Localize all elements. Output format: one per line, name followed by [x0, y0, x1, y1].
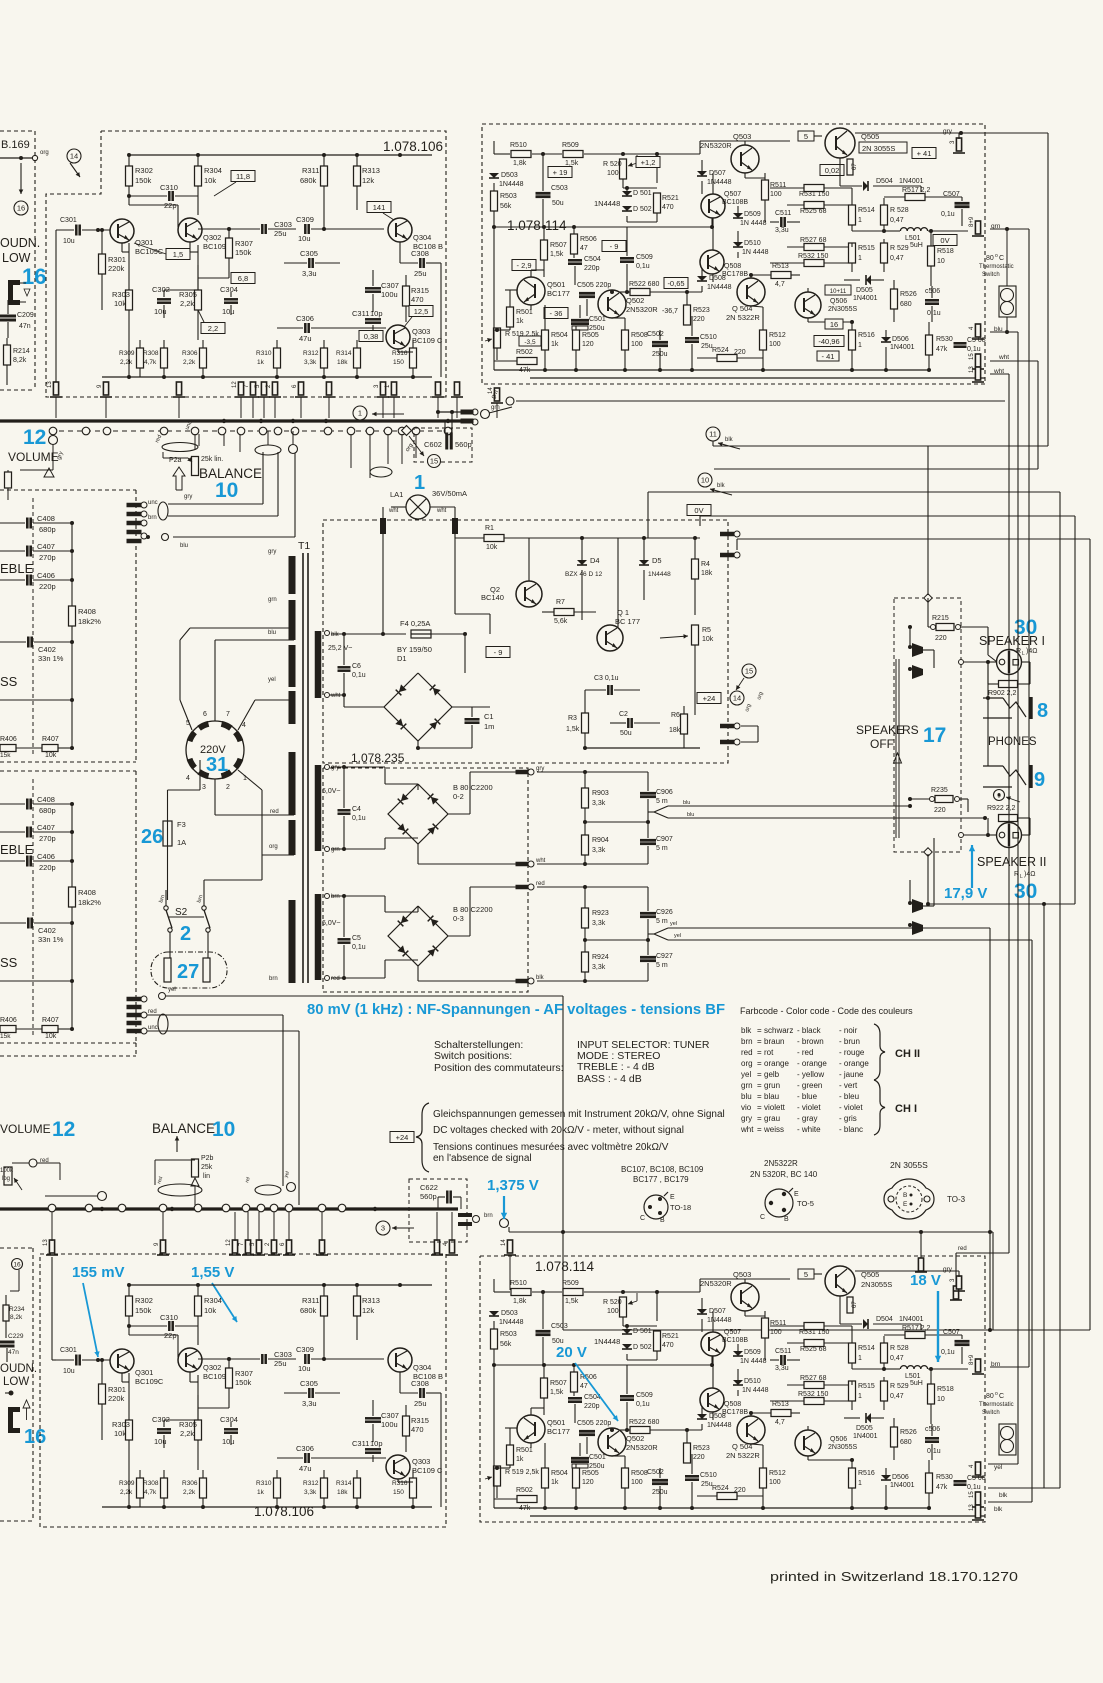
- svg-text:- yellow: - yellow: [797, 1070, 824, 1079]
- capacitor C303 25u: [198, 220, 296, 238]
- capacitor C906 5m: [640, 772, 673, 822]
- resistor R306 2,2k: [182, 340, 207, 377]
- annotation 31 cyan: [206, 754, 228, 776]
- svg-text:C304: C304: [220, 1415, 238, 1424]
- svg-text:680p: 680p: [39, 806, 56, 815]
- svg-text:R314: R314: [336, 350, 352, 357]
- svg-text:470: 470: [411, 1425, 424, 1434]
- svg-text:C: C: [760, 1214, 765, 1221]
- T1 secondary 6V winding upper: [318, 765, 341, 854]
- diode D510 1N4448 (lower): [733, 1369, 769, 1396]
- wire Q502 links (lower): [610, 1428, 625, 1456]
- label 1.078.114: [507, 218, 567, 233]
- svg-text:C406: C406: [37, 852, 55, 861]
- resistor R506 47: [571, 225, 597, 258]
- svg-text:R515: R515: [858, 245, 875, 252]
- svg-text:R301: R301: [108, 255, 126, 264]
- svg-text:13: 13: [43, 1239, 49, 1246]
- svg-text:D504: D504: [876, 178, 893, 185]
- svg-text:100: 100: [770, 191, 782, 198]
- svg-text:4,7k: 4,7k: [144, 359, 157, 366]
- svg-text:18 V: 18 V: [910, 1272, 941, 1289]
- wire Q501 links: [510, 270, 544, 310]
- svg-text:Q507: Q507: [724, 191, 741, 198]
- capacitor C510 25u (lower): [685, 1454, 717, 1508]
- wire gry rail to filters: [537, 770, 587, 774]
- wire blu pair to speakers: [648, 800, 987, 820]
- wire blk rail to filters: [537, 979, 587, 983]
- svg-text:R 520: R 520: [603, 161, 622, 168]
- resistor R501 1k: [507, 290, 533, 330]
- power supply board dashed outline: [323, 520, 728, 763]
- svg-text:)4Ω: )4Ω: [1026, 648, 1037, 655]
- diode D506 1N4001 (lower): [881, 1468, 915, 1508]
- svg-text:50u: 50u: [552, 200, 564, 207]
- svg-text:10u: 10u: [298, 234, 311, 243]
- svg-text:D 502: D 502: [633, 206, 652, 213]
- wire gry from Q505 to speakers loop: [713, 131, 1048, 446]
- svg-text:1,375 V: 1,375 V: [487, 1177, 539, 1194]
- plug 14 lower: [501, 1239, 516, 1290]
- svg-text:25u: 25u: [274, 229, 287, 238]
- svg-text:R515: R515: [858, 1383, 875, 1390]
- svg-text:D1: D1: [397, 654, 407, 663]
- wire grn return top amp: [516, 230, 1005, 401]
- svg-text:- 9: - 9: [610, 242, 619, 251]
- capacitor C506 0,1u: [925, 286, 941, 322]
- svg-text:2N5320R: 2N5320R: [700, 141, 732, 150]
- svg-text:CH II: CH II: [895, 1048, 920, 1060]
- svg-text:R504: R504: [551, 332, 568, 339]
- svg-text:0,47: 0,47: [890, 255, 904, 262]
- svg-text:blu: blu: [994, 326, 1003, 333]
- label LOUDN. LOW: [0, 236, 40, 265]
- svg-text:25u: 25u: [414, 269, 427, 278]
- svg-text:C2: C2: [619, 711, 628, 718]
- svg-text:220: 220: [693, 1454, 705, 1461]
- svg-text:5uH: 5uH: [910, 242, 923, 249]
- transformer T1 core: [303, 553, 308, 983]
- brace CH I: [874, 1080, 917, 1135]
- svg-text:R4: R4: [701, 561, 710, 568]
- svg-text:R234: R234: [9, 1306, 25, 1313]
- svg-text:D507: D507: [709, 1308, 726, 1315]
- label 2N types TO5: [750, 1159, 818, 1179]
- svg-text:grau: grau: [764, 1114, 780, 1123]
- boxed value 0,02: [820, 165, 844, 176]
- svg-text:10k: 10k: [486, 544, 498, 551]
- svg-text:5,6k: 5,6k: [554, 618, 568, 625]
- boxed value +1,2: [636, 157, 660, 168]
- svg-text:141: 141: [373, 203, 386, 212]
- wires bus to lower plugs: [52, 1212, 452, 1241]
- svg-text:10k: 10k: [702, 636, 714, 643]
- resistor R903 3,3k: [582, 772, 609, 822]
- svg-text:1N4448: 1N4448: [707, 1422, 732, 1429]
- speaker switch dashed box: [894, 598, 961, 852]
- svg-text:C305: C305: [300, 249, 318, 258]
- svg-text:R505: R505: [582, 1470, 599, 1477]
- svg-text:3,3u: 3,3u: [775, 227, 789, 234]
- svg-text:R522 680: R522 680: [629, 1419, 659, 1426]
- svg-text:C: C: [999, 255, 1004, 262]
- plug 4 blu: [969, 324, 1003, 339]
- svg-text:- violet: - violet: [797, 1103, 821, 1112]
- svg-text:yel: yel: [741, 1070, 751, 1079]
- svg-text:blk: blk: [717, 483, 726, 489]
- svg-text:1: 1: [358, 409, 362, 418]
- svg-text:13: 13: [969, 1504, 975, 1511]
- resistor R503 56k: [491, 191, 517, 330]
- svg-text:wht: wht: [993, 368, 1004, 375]
- thermostatic switch 80C (lower): [979, 1391, 1016, 1455]
- svg-text:150k: 150k: [135, 1306, 152, 1315]
- svg-text:- noir: - noir: [839, 1026, 858, 1035]
- wire mid rail 114 (lower): [492, 1329, 714, 1367]
- svg-text:red: red: [148, 1009, 157, 1015]
- switch S2: [158, 855, 262, 958]
- svg-text:C504: C504: [584, 256, 601, 263]
- resistor R902 2,2: [988, 662, 1030, 697]
- svg-text:D508: D508: [709, 275, 726, 282]
- svg-text:wht: wht: [740, 1125, 754, 1134]
- svg-text:BC140: BC140: [481, 593, 504, 602]
- svg-text:unc: unc: [148, 500, 158, 506]
- resistor R513 4,7: [750, 263, 800, 288]
- svg-text:C5 08: C5 08: [967, 337, 986, 344]
- svg-text:80: 80: [986, 255, 994, 262]
- resistor R531 150: [770, 185, 852, 199]
- resistor R316 150: [392, 340, 417, 377]
- label gry plug (lower): [855, 1266, 965, 1291]
- label SPEAKER II: [977, 855, 1046, 869]
- wire Q506 links (lower): [808, 1426, 854, 1462]
- svg-text:R214: R214: [13, 348, 30, 355]
- svg-text:Q 504: Q 504: [732, 304, 752, 313]
- svg-text:D505: D505: [856, 1425, 873, 1432]
- svg-text:R527 68: R527 68: [800, 237, 827, 244]
- svg-text:0,1u: 0,1u: [352, 944, 366, 951]
- wire red long lower: [147, 1015, 283, 1186]
- resistor R520 100: [603, 155, 637, 188]
- capacitor C305 3,3u: [284, 1379, 340, 1408]
- capacitor C311 10p: [352, 1439, 383, 1462]
- svg-text:R406: R406: [0, 1017, 17, 1024]
- svg-text:114: 114: [545, 218, 567, 233]
- svg-text:1N 4448: 1N 4448: [742, 1387, 769, 1394]
- wire bus brn to lower right: [509, 1227, 993, 1330]
- svg-text:220: 220: [934, 807, 946, 814]
- svg-text:2N5322R: 2N5322R: [764, 1159, 798, 1168]
- svg-text:1k: 1k: [551, 1479, 559, 1486]
- svg-text:Q508: Q508: [724, 263, 741, 270]
- svg-text:1N4448: 1N4448: [594, 1337, 620, 1346]
- svg-text:0V: 0V: [694, 506, 703, 515]
- transistor Q505 2N3055S: [825, 128, 879, 158]
- bridge rectifier B80 C2200 0-2: [388, 783, 493, 844]
- svg-text:5uH: 5uH: [910, 1380, 923, 1387]
- wire tone rail: [0, 927, 74, 1029]
- wire blu plug4 to lower amp: [988, 332, 1018, 1464]
- pinout TO-5: [760, 1188, 814, 1223]
- svg-text:- blanc: - blanc: [839, 1125, 863, 1134]
- svg-text:yel: yel: [268, 677, 276, 683]
- transistor Q508 BC178B: [700, 250, 748, 278]
- svg-text:TO-5: TO-5: [797, 1199, 814, 1208]
- svg-text:C927: C927: [656, 953, 673, 960]
- svg-text:C304: C304: [220, 285, 238, 294]
- node 14 circled: [67, 149, 81, 163]
- svg-text:47k: 47k: [936, 1484, 948, 1491]
- transistor Q505 2N3055S (lower): [825, 1266, 879, 1296]
- svg-text:0-2: 0-2: [453, 792, 464, 801]
- resistor R521 470 (lower): [654, 1331, 679, 1351]
- svg-text:R516: R516: [858, 1470, 875, 1477]
- svg-text:4,7: 4,7: [775, 1419, 785, 1426]
- capacitor C301 10u: [56, 1347, 110, 1375]
- svg-text:680: 680: [900, 1439, 912, 1446]
- svg-text:R512: R512: [769, 1470, 786, 1477]
- wire tone rail: [0, 646, 74, 748]
- svg-text:R524: R524: [712, 347, 729, 354]
- svg-text:BALANCE: BALANCE: [152, 1121, 215, 1136]
- svg-text:15: 15: [969, 353, 975, 360]
- svg-text:680: 680: [900, 301, 912, 308]
- svg-text:grun: grun: [764, 1081, 780, 1090]
- svg-text:12: 12: [52, 1118, 75, 1141]
- resistor R406: [0, 1017, 17, 1040]
- svg-text:R509: R509: [562, 1280, 579, 1287]
- svg-text:C503: C503: [551, 1323, 568, 1330]
- wire yel pair feed: [988, 928, 1032, 1502]
- svg-text:R522 680: R522 680: [629, 281, 659, 288]
- svg-text:R306: R306: [182, 1480, 198, 1487]
- svg-text:R407: R407: [42, 1017, 59, 1024]
- svg-text:unc: unc: [148, 1025, 158, 1031]
- wire wht rail to filters: [537, 862, 587, 866]
- svg-text:2N5320R: 2N5320R: [700, 1279, 732, 1288]
- capacitor C6 0,1u: [330, 634, 366, 697]
- svg-text:1.078.235: 1.078.235: [351, 751, 405, 765]
- wire org from B.169: [0, 150, 49, 161]
- svg-text:L501: L501: [905, 235, 921, 242]
- svg-text:C407: C407: [37, 542, 55, 551]
- tone board dashed edge: [0, 490, 136, 762]
- svg-text:Q302: Q302: [203, 1363, 221, 1372]
- capacitor C907 5m: [640, 822, 673, 864]
- svg-text:560p: 560p: [455, 440, 472, 449]
- capacitor C311 10p: [352, 309, 383, 332]
- svg-text:1N4001: 1N4001: [853, 1433, 878, 1440]
- svg-text:C502: C502: [647, 1469, 664, 1476]
- transistor Q502 2N5320R: [598, 290, 658, 318]
- svg-text:R510: R510: [510, 1280, 527, 1287]
- svg-text:1.078.114: 1.078.114: [535, 1259, 595, 1274]
- svg-text:Q301: Q301: [135, 238, 153, 247]
- svg-text:E: E: [794, 1191, 799, 1198]
- svg-text:R 528: R 528: [890, 1345, 909, 1352]
- svg-text:1N 4448: 1N 4448: [742, 249, 769, 256]
- resistor R313 12k: [354, 155, 380, 210]
- svg-text:47: 47: [580, 245, 588, 252]
- resistor R525 68: [787, 202, 852, 216]
- svg-text:15: 15: [430, 457, 438, 466]
- resistor R7 5,6k: [542, 599, 596, 625]
- svg-text:17,9 V: 17,9 V: [944, 885, 987, 902]
- wire input to plug 13: [47, 230, 62, 418]
- svg-text:12k: 12k: [362, 1306, 374, 1315]
- svg-text:S2: S2: [175, 907, 188, 918]
- svg-text:blk: blk: [536, 975, 545, 981]
- arrow from node 14: [70, 163, 80, 177]
- resistor R4 18k: [692, 536, 713, 615]
- svg-text:org: org: [269, 844, 278, 850]
- capacitor C305 3,3u: [284, 249, 340, 278]
- svg-text:15: 15: [969, 1491, 975, 1498]
- T1 primary winding brn: [269, 900, 292, 983]
- wire yel from plug group: [159, 987, 566, 1330]
- brace CH II: [874, 1024, 920, 1080]
- annotation 10 cyan lower: [212, 1118, 235, 1141]
- svg-text:C906: C906: [656, 789, 673, 796]
- diode D5 1N4448: [639, 536, 671, 600]
- mains plug pins: [190, 724, 241, 776]
- svg-text:CH I: CH I: [895, 1103, 917, 1115]
- svg-text:3: 3: [202, 784, 206, 791]
- svg-text:- blue: - blue: [797, 1092, 818, 1101]
- wire Q301 emitter link: [122, 1373, 129, 1382]
- wire top rail: [127, 1283, 432, 1287]
- wire yel pair to speakers: [648, 921, 1032, 940]
- shield ovals lower: [156, 1171, 295, 1196]
- svg-text:10: 10: [937, 258, 945, 265]
- diode D509 1N4448: [733, 206, 767, 227]
- svg-text:C509: C509: [636, 254, 653, 261]
- capacitor C308 25u: [400, 1372, 441, 1507]
- svg-text:R305: R305: [179, 1420, 197, 1429]
- svg-text:250u: 250u: [589, 1463, 605, 1470]
- svg-text:3,3k: 3,3k: [592, 920, 606, 927]
- resistor R314 18k: [336, 1470, 361, 1507]
- svg-text:1.078: 1.078: [507, 218, 541, 233]
- svg-text:3,3u: 3,3u: [302, 1399, 317, 1408]
- svg-text:R 519 2,5k: R 519 2,5k: [505, 1469, 539, 1476]
- plug red 235: [516, 881, 545, 890]
- svg-text:3: 3: [381, 1224, 385, 1233]
- label LOUDN LOW lower: [0, 1363, 37, 1388]
- svg-text:Position des commutateurs:: Position des commutateurs:: [434, 1062, 564, 1074]
- svg-text:grn: grn: [268, 597, 277, 603]
- label BASS fragment: [0, 955, 18, 970]
- svg-text:LA1: LA1: [390, 490, 403, 499]
- fuse F4 0,25A: [400, 619, 431, 638]
- diode D503 1N4448 (lower): [489, 1310, 524, 1329]
- svg-text:3,3k: 3,3k: [304, 1489, 317, 1496]
- svg-text:C502: C502: [647, 331, 664, 338]
- heading 80mV cyan: [307, 1001, 725, 1018]
- svg-text:10k: 10k: [204, 176, 216, 185]
- svg-text:R506: R506: [580, 236, 597, 243]
- resistor R407 10k: [16, 736, 74, 759]
- resistor R520 100 (lower): [603, 1293, 637, 1326]
- capacitor C509 0,1u: [620, 227, 653, 294]
- svg-text:C926: C926: [656, 909, 673, 916]
- svg-text:C: C: [999, 1393, 1004, 1400]
- annotation 12 cyan lower: [52, 1118, 75, 1141]
- svg-text:wht: wht: [436, 508, 447, 514]
- wire Q301-Q302 coupling: [127, 1324, 178, 1357]
- transistor Q503 2N5320R: [700, 132, 759, 173]
- svg-text:15: 15: [745, 667, 753, 676]
- svg-text:680k: 680k: [300, 1306, 317, 1315]
- resistor R522 680 (lower): [620, 1419, 693, 1434]
- svg-text:=: =: [757, 1092, 762, 1101]
- annotation 8 cyan: [1037, 700, 1048, 722]
- svg-text:680p: 680p: [39, 525, 56, 534]
- capacitor C503 50u: [536, 152, 568, 227]
- wire Q504 links (lower): [749, 1411, 763, 1445]
- speaker jack I: [959, 650, 1022, 675]
- svg-text:VOLUME: VOLUME: [0, 1122, 51, 1136]
- svg-text:14: 14: [733, 694, 741, 703]
- svg-text:C311: C311: [352, 1439, 369, 1448]
- svg-text:11: 11: [709, 430, 717, 439]
- annotation 27 cyan: [177, 961, 199, 983]
- node 3 circled with arrow: [376, 1221, 414, 1235]
- annotation 1,375V cyan: [487, 1177, 539, 1219]
- wire Q302 emitter link: [190, 1372, 198, 1382]
- mains plug 220V: [186, 721, 244, 779]
- transistor Q506 2N3055S (lower): [795, 1430, 858, 1456]
- boxed value 12,5: [404, 306, 433, 328]
- svg-text:yel: yel: [674, 933, 681, 939]
- svg-text:C5: C5: [352, 935, 361, 942]
- svg-text:R311: R311: [302, 166, 319, 175]
- svg-text:D508: D508: [709, 1413, 726, 1420]
- note Tensions: [433, 1142, 669, 1164]
- svg-text:C5 08: C5 08: [967, 1475, 986, 1482]
- svg-text:10u: 10u: [154, 1437, 167, 1446]
- capacitor C926 5m: [640, 887, 673, 940]
- svg-text:yel: yel: [670, 921, 677, 927]
- svg-text:R408: R408: [78, 607, 96, 616]
- resistor R312 3,3k: [303, 1470, 328, 1507]
- svg-text:C308: C308: [411, 1379, 429, 1388]
- svg-text:R6: R6: [671, 712, 680, 719]
- svg-text:2: 2: [180, 923, 191, 945]
- resistor R528 0,47 (lower): [881, 1336, 909, 1369]
- transistor Q1 BC177: [597, 538, 640, 651]
- wire input lower from plug 13: [52, 1257, 56, 1360]
- resistor R301 220k: [99, 1358, 126, 1440]
- svg-text:R314: R314: [336, 1480, 352, 1487]
- output plugs lower: [458, 1213, 509, 1228]
- svg-text:R7: R7: [556, 599, 565, 606]
- svg-text:B.169: B.169: [1, 139, 30, 151]
- svg-text:220: 220: [935, 635, 947, 642]
- svg-text:Switch positions:: Switch positions:: [434, 1050, 512, 1062]
- pinout TO-3: [884, 1179, 966, 1219]
- diode D508 1N4448 (lower): [620, 1406, 732, 1430]
- resistor R510 1,8k (lower): [510, 1280, 531, 1305]
- transistor Q2 BC140: [481, 538, 542, 607]
- svg-text:0,1u: 0,1u: [967, 1484, 981, 1491]
- wire mid rail 114: [492, 191, 714, 229]
- capacitor C504 220p: [568, 256, 601, 285]
- resistor R303 10k: [112, 1373, 133, 1507]
- label TREBLE fragment: [0, 561, 34, 576]
- svg-text:=: =: [757, 1103, 762, 1112]
